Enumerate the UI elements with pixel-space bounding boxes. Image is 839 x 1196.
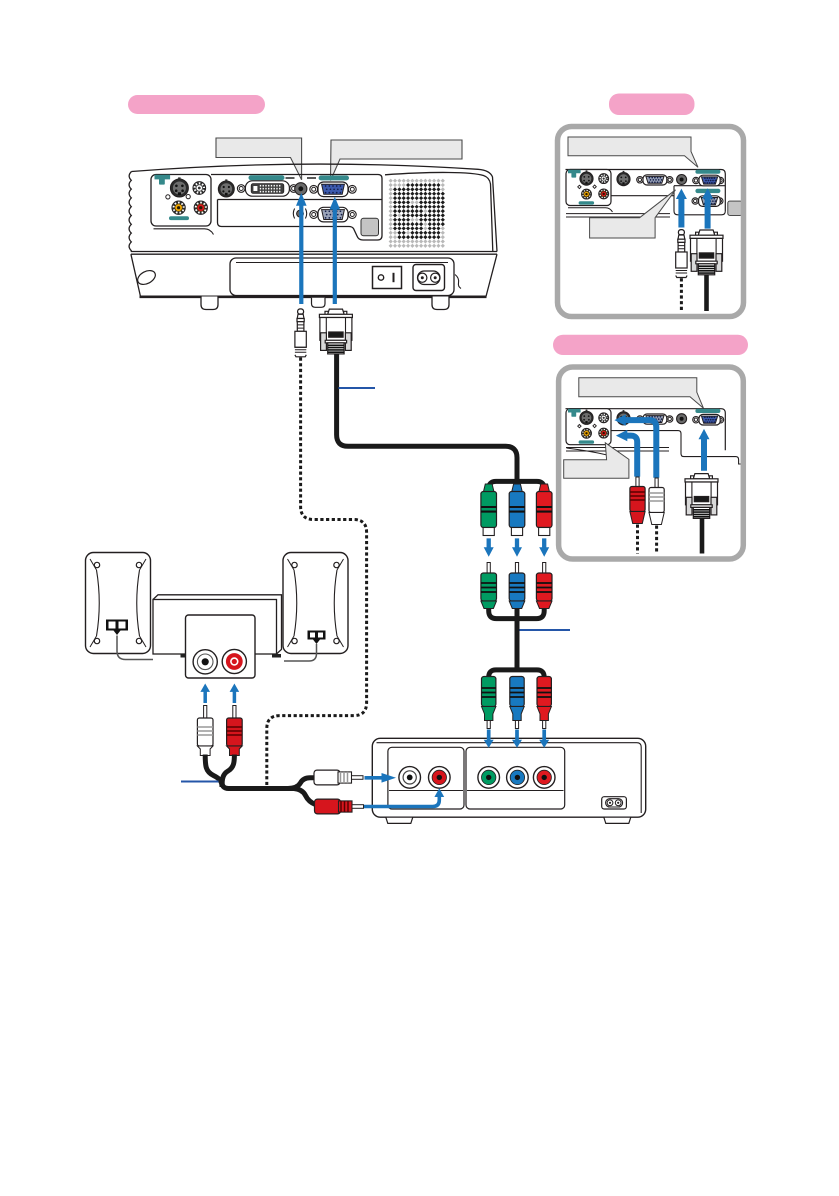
DVD audio L jack (white)	[399, 767, 421, 789]
VGA male connector (inset 1)	[690, 230, 723, 275]
COMPUTER IN blue VGA (inset)	[699, 414, 720, 425]
teal bar above DVI	[249, 175, 285, 180]
blue arrow to AUDIO IN	[296, 193, 307, 304]
pink title band: main section	[128, 95, 265, 114]
oval slot on base	[135, 268, 157, 288]
audio mini jack (inset)	[677, 175, 687, 185]
video in RCA jack (yellow)	[172, 201, 185, 214]
component cable connector female (blue)	[509, 484, 525, 536]
audio in RCA jack (red)	[194, 201, 207, 214]
blank callout (inset box 1 top)	[568, 137, 698, 167]
blue arrow (green plug to socket)	[484, 538, 494, 556]
left speaker terminal	[106, 620, 128, 636]
AV block (inset)	[566, 409, 611, 445]
leader line: component video cable label	[520, 629, 571, 631]
DVD component Cb jack (blue)	[507, 767, 529, 789]
S-Video jack (inset)	[580, 170, 593, 185]
dashed audio cable (mini plug to DVD audio)	[267, 358, 367, 792]
blue arrow (red plug to socket)	[539, 538, 549, 556]
VGA computer connector (inset)	[643, 414, 667, 424]
red RCA plug (inset 2)	[630, 477, 645, 524]
PC control mini-DIN (inset)	[617, 171, 630, 186]
blank callout box (computer in label)	[331, 140, 463, 181]
red RCA plug (right)	[315, 799, 364, 814]
teal tab (inset)	[568, 409, 581, 417]
VGA male connector (inset 2)	[685, 474, 718, 519]
audio mini jack (inset)	[677, 414, 687, 424]
AV block (inset)	[566, 170, 611, 206]
small hook detail	[455, 275, 461, 289]
blue arrow to COMPUTER IN	[330, 197, 341, 304]
projector middle foot	[312, 298, 326, 308]
component RCA plug male up (blue)	[509, 563, 525, 609]
blank plate	[361, 218, 379, 236]
DVD component out panel	[466, 747, 565, 809]
gray inset box 1 (top right)	[558, 127, 744, 317]
component cable connector female (green)	[481, 484, 497, 536]
blank callout box (audio in label)	[216, 138, 302, 180]
DVD component Y jack (green)	[478, 767, 500, 789]
component splitter bracket 1	[489, 481, 545, 493]
connector panel recess	[211, 175, 382, 241]
audio cable from plugs to DVD	[205, 755, 317, 806]
blank plate (inset)	[728, 201, 742, 215]
teal bar (inset AV)	[579, 440, 595, 443]
left speaker	[86, 553, 151, 654]
COMPUTER IN blue VGA (inset)	[699, 175, 720, 186]
component RCA plug male up (red)	[536, 563, 552, 609]
dashed cables (inset 2)	[638, 525, 657, 554]
DVD component Cr jack (red)	[533, 767, 555, 789]
blue arrow into DVD red jack	[539, 730, 549, 748]
component RCA plug male up (green)	[481, 563, 497, 609]
teal tab (inset)	[568, 170, 581, 178]
red RCA jack (inset)	[599, 428, 609, 438]
projector right foot	[432, 297, 449, 310]
white RCA plug (inset 2)	[649, 478, 664, 525]
teal bar under AV block	[169, 216, 189, 220]
R marker	[186, 195, 190, 199]
blue bent arrow to white jack (inset 2)	[625, 420, 656, 478]
blue bent arrow into DVD red jack	[364, 797, 439, 807]
amplifier unit (3D box)	[153, 595, 282, 654]
VGA cable (inset 2)	[700, 518, 705, 554]
VGA computer connector (inset)	[643, 175, 667, 185]
component RCA plug male down (blue)	[510, 677, 524, 729]
audio input panel	[186, 615, 256, 678]
leader line: 15-pin to RCA cable label	[339, 387, 376, 389]
PC control mini-DIN	[218, 179, 234, 197]
blank callout (inset box 2 top)	[579, 378, 704, 409]
white RCA plug (up)	[197, 706, 213, 756]
DVD audio R jack (red)	[429, 767, 451, 789]
vent grille	[389, 179, 445, 248]
red audio jack (R)	[222, 649, 246, 673]
DVD feet	[386, 817, 631, 823]
teal bar above COMPUTER IN	[319, 176, 349, 181]
teal bar below blue VGA (inset)	[695, 189, 720, 193]
AUDIO IN mini jack	[295, 183, 307, 195]
monitor out VGA (inset)	[699, 196, 721, 207]
audio mini plug (inset 1)	[676, 230, 687, 278]
pink title band: top-right box	[609, 94, 695, 116]
white RCA plug (right)	[314, 770, 363, 785]
component splitter bracket 3	[489, 670, 545, 681]
component RCA plug male down (green)	[482, 677, 496, 729]
white RCA jack (inset)	[599, 413, 609, 423]
teal bar (inset AV)	[579, 201, 595, 204]
blank callout (inset box 1 left)	[590, 190, 676, 238]
yellow RCA jack (inset)	[582, 428, 592, 438]
VGA cable (inset 1)	[704, 275, 709, 311]
component RCA plug male down (red)	[537, 677, 551, 729]
power switch	[373, 267, 402, 289]
DVD power inlet	[602, 797, 627, 809]
blue arrow to R jack	[230, 684, 240, 704]
blue bent arrow to red jack (inset 2)	[627, 436, 638, 477]
white RCA jack	[193, 182, 206, 195]
component cable connector female (red)	[536, 484, 552, 536]
blue arrow into DVD white jack	[365, 773, 397, 783]
blue arrow to computer in (inset 1)	[702, 188, 713, 228]
red RCA jack (inset)	[599, 189, 609, 199]
S-Video jack (inset)	[580, 410, 593, 425]
teal tab	[155, 175, 171, 185]
teal bar above blue VGA (inset)	[695, 170, 720, 174]
projector base bottom edge	[140, 295, 487, 298]
DVD player body	[372, 738, 645, 817]
PC control mini-DIN (inset)	[617, 410, 630, 425]
blue arrow to L jack	[200, 684, 210, 704]
component splitter bracket 2	[489, 605, 545, 668]
DVD audio out panel	[388, 747, 464, 809]
leader line: audio cable label	[181, 781, 219, 783]
left speaker wire	[117, 636, 153, 660]
audio out mini jack	[293, 209, 306, 219]
dash marks beside audio jack	[286, 177, 317, 179]
right speaker	[283, 553, 348, 654]
white RCA jack (inset)	[599, 174, 609, 184]
gray inset box 2 (bottom right)	[559, 367, 744, 559]
DVI connector	[245, 181, 289, 196]
yellow RCA jack (inset)	[582, 189, 592, 199]
blue arrow into DVD blue jack	[512, 730, 522, 748]
power recess panel	[230, 258, 454, 296]
dashed audio cable (inset 1)	[680, 278, 683, 311]
VGA video cable	[337, 354, 517, 480]
projector body outline	[129, 164, 497, 296]
projector left foot	[201, 297, 218, 310]
red RCA plug (up)	[227, 706, 243, 756]
blank callout (inset box 2 left)	[564, 443, 629, 479]
AV input block	[151, 175, 211, 227]
power inlet	[413, 265, 445, 291]
right speaker terminal	[308, 631, 326, 645]
L marker	[166, 195, 170, 199]
blue arrow to computer in (inset 2)	[699, 429, 710, 471]
blue arrow (blue plug to socket)	[512, 538, 522, 556]
MONITOR OUT connector	[318, 207, 348, 222]
white audio jack (L)	[193, 650, 217, 674]
blue arrow to audio in (inset 1)	[676, 189, 687, 228]
pink title band: bottom-right box	[553, 335, 748, 355]
right speaker wire	[284, 644, 317, 661]
teal bar above blue VGA (inset)	[695, 409, 720, 413]
amplifier feet	[181, 654, 191, 658]
blue arrow into DVD green jack	[484, 730, 494, 748]
COMPUTER IN connector (blue VGA)	[318, 182, 348, 197]
S-Video jack	[170, 177, 188, 197]
